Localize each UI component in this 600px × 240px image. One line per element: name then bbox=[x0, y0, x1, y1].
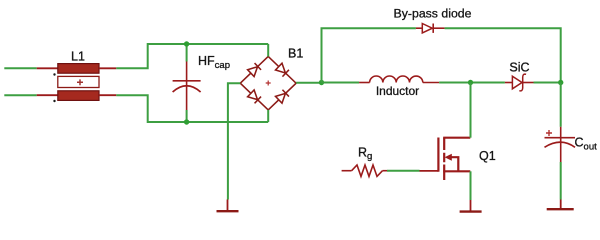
wire: Cout bottom lead bbox=[560, 142, 562, 162]
wire: bypass diode left lead bbox=[416, 27, 422, 29]
node: junction output bbox=[558, 80, 563, 85]
ground middle stem bbox=[470, 200, 472, 211]
node: junction bypass left bbox=[319, 80, 324, 85]
transistor Q1 mosfet bbox=[438, 138, 470, 181]
L1 polarity dot bottom bbox=[53, 100, 55, 102]
inductor L1 top winding bbox=[58, 64, 99, 74]
svg-text:Q1: Q1 bbox=[479, 149, 496, 163]
svg-text:Rg: Rg bbox=[358, 145, 372, 162]
node: junction bottom rail bbox=[184, 119, 189, 124]
wire: source to ground bbox=[470, 171, 472, 200]
wire: inductor to SiC bbox=[439, 82, 505, 84]
inductor boost coil bbox=[370, 76, 423, 83]
wire: bridge right vertex to rail bbox=[296, 82, 321, 84]
diode SiC schottky bbox=[512, 74, 526, 91]
Q1 channel dashes bbox=[443, 138, 445, 181]
node: junction Q1 drain bbox=[468, 80, 473, 85]
wire: AC input top bbox=[4, 67, 36, 69]
wire: rail junction to inductor bbox=[322, 82, 360, 84]
B1 center plus bbox=[266, 81, 271, 86]
wire: L1 bottom left lead bbox=[37, 94, 58, 96]
wire: bottom to bottom rail bbox=[116, 95, 268, 122]
Q1 gate bar bbox=[437, 138, 439, 172]
wire: L1 top left lead bbox=[37, 67, 58, 69]
wire: Cout to ground bbox=[560, 162, 562, 200]
resistor Rg bbox=[352, 165, 383, 176]
capacitor Cout bbox=[545, 138, 576, 148]
wire: inductor right lead bbox=[423, 82, 439, 84]
wire: HF cap top lead bbox=[186, 62, 188, 87]
svg-text:HFcap: HFcap bbox=[198, 54, 230, 71]
wire: bypass top run right and drop bbox=[445, 28, 561, 82]
ground left bar bbox=[217, 210, 239, 212]
resistor Rg right lead bbox=[383, 170, 388, 172]
inductor L1 bottom winding bbox=[58, 91, 99, 101]
resistor Rg left lead bbox=[342, 170, 352, 172]
svg-text:B1: B1 bbox=[288, 47, 303, 61]
svg-text:Inductor: Inductor bbox=[376, 84, 419, 98]
wire: SiC left lead bbox=[505, 82, 513, 84]
ground right stem bbox=[560, 200, 562, 209]
wire: output node down to Cout bbox=[560, 83, 562, 127]
wire: bridge top riser bbox=[267, 44, 269, 57]
Q1 body line bbox=[447, 157, 458, 171]
wire: HF cap top bbox=[186, 44, 188, 62]
node: junction top rail bbox=[184, 41, 189, 46]
diode B1 top-left bbox=[248, 63, 261, 76]
svg-text:L1: L1 bbox=[71, 50, 85, 64]
capacitor HFcap bbox=[173, 81, 201, 92]
L1 core bbox=[58, 76, 99, 87]
wire: drain riser bbox=[470, 83, 472, 138]
diode: by-pass diode bbox=[422, 24, 433, 33]
wire: bypass diode right lead bbox=[433, 27, 444, 29]
wire: Rg to gate bbox=[387, 170, 420, 172]
diode B1 bottom-right bbox=[276, 90, 289, 103]
svg-text:Cout: Cout bbox=[575, 136, 598, 153]
wire: bypass riser and top run bbox=[322, 28, 416, 82]
L1 core polarity plus bbox=[77, 79, 83, 85]
wire: AC input bottom bbox=[4, 94, 36, 96]
wire: bridge left vertex to ground bbox=[228, 83, 240, 199]
Q1 source lead bbox=[443, 170, 470, 172]
svg-text:SiC: SiC bbox=[509, 61, 529, 75]
svg-text:By-pass diode: By-pass diode bbox=[394, 6, 472, 20]
ground right bar bbox=[547, 208, 574, 210]
wire: SiC right lead bbox=[523, 82, 534, 84]
bridge rectifier B1 diamond bbox=[240, 57, 296, 110]
L1 polarity dot top bbox=[53, 73, 55, 75]
wire: SiC to output node bbox=[534, 82, 561, 84]
Q1 body arrow head bbox=[445, 154, 452, 161]
wire: HF cap bottom bbox=[186, 110, 188, 122]
ground left stem bbox=[227, 200, 229, 211]
diode B1 top-right bbox=[276, 63, 289, 76]
wire: HF cap bottom lead bbox=[186, 86, 188, 110]
wire: inductor left lead bbox=[359, 82, 370, 84]
wire: Cout top lead bbox=[560, 127, 562, 142]
wire: top to top rail bbox=[116, 44, 268, 68]
wire: L1 top right lead bbox=[99, 67, 116, 69]
ground middle bar bbox=[460, 210, 482, 212]
wire: gate lead bbox=[420, 170, 439, 172]
Cout polarity plus bbox=[546, 130, 552, 136]
wire: bridge bottom riser bbox=[267, 110, 269, 122]
Q1 drain lead bbox=[443, 137, 470, 139]
diode B1 bottom-left bbox=[248, 90, 261, 103]
wire: L1 bottom right lead bbox=[99, 94, 116, 96]
